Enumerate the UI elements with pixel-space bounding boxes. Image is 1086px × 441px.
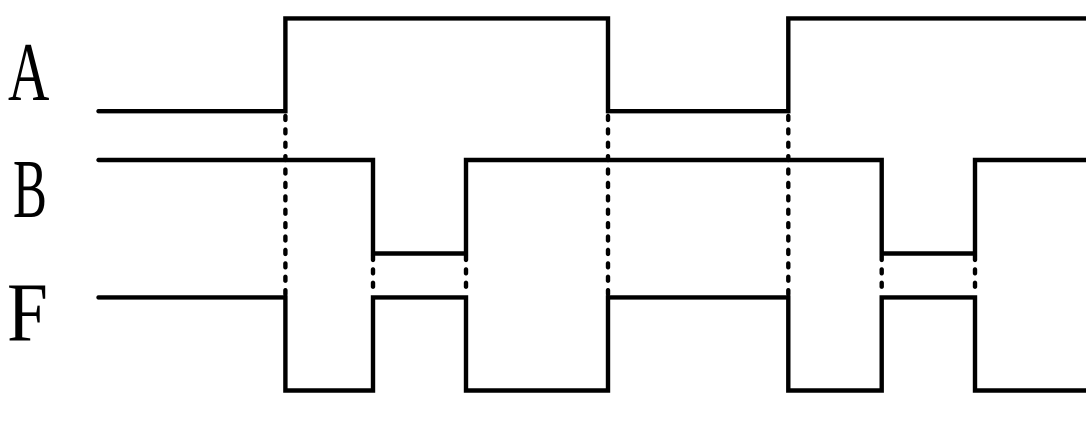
svg-text:B: B [13,143,47,236]
svg-text:F: F [7,267,48,360]
svg-text:A: A [8,25,49,118]
